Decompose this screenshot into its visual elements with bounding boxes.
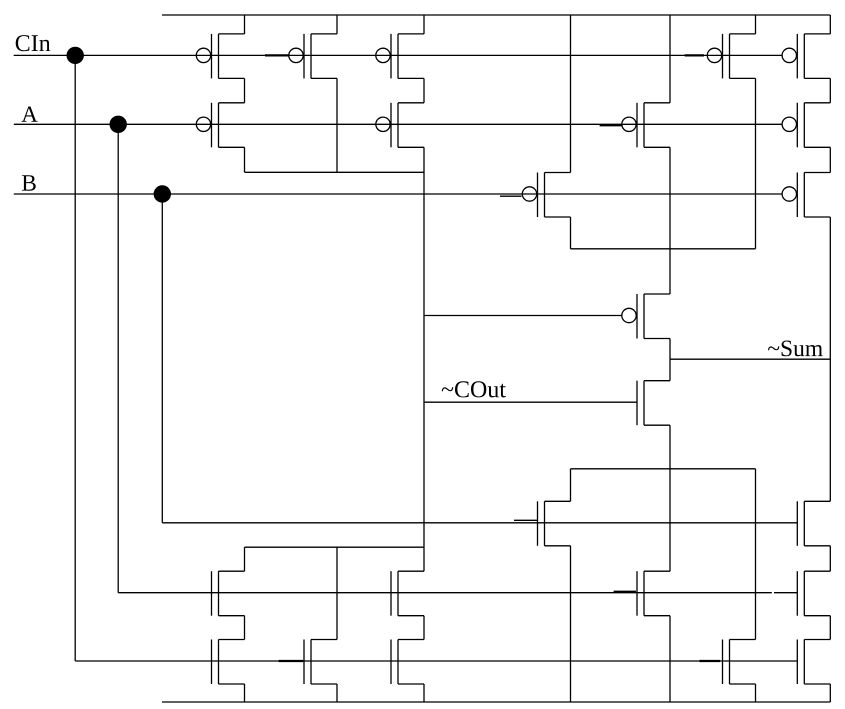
transistor N4 NMOS gate A (carry pull-down) [212,571,245,616]
transistor P2 PMOS gate CIn (carry pull-up) [289,34,337,79]
wire sum inverter output vertical [669,339,671,381]
wire sum pull-down node horizontal [571,468,756,470]
wire P9 drain to P10 source [829,78,831,102]
node CIn junction dot [67,47,83,63]
transistor N3 NMOS gate B (sum stack) [797,501,830,546]
transistor P11 PMOS gate B (sum stack) [782,173,830,218]
wire N6 source to GND [669,616,671,702]
transistor P5 PMOS gate A (carry pull-up) [376,103,424,148]
wire B input net (horizontal) [14,193,782,195]
net label ~Sum [768,341,823,357]
wire N2 drain to sum pull-down node [570,469,572,502]
net label ~COut [442,381,506,397]
wire GND bottom rail [162,701,830,703]
wire B net NMOS gate row [162,522,797,524]
wire P1 source to VDD [244,15,246,34]
transistor N8 NMOS gate CIn (carry pull-down) [212,640,245,685]
wire P2 drain to carry bus [336,78,338,172]
wire CIn input net (horizontal) [14,54,782,56]
wire sum pull-down node to N11 drain [755,469,757,640]
wire gate tick N9 [279,660,304,662]
wire sum pull-up node horizontal [571,248,756,250]
wire N4 source to N8 drain [244,616,246,640]
wire A net NMOS gate row (right stub) [774,592,797,594]
transistor P3 PMOS gate CIn (carry pull-up) [376,34,424,79]
wire N11 source to GND [755,684,757,702]
wire N4 drain to NMOS bus [244,547,246,571]
transistor P9 PMOS gate CIn (sum stack) [782,34,830,79]
wire P6 drain to sum pull-up node [570,217,572,249]
wire P3 source to VDD [423,15,425,34]
wire P11 drain to Sum node and N3 drain [829,217,831,501]
wire VDD top rail [162,14,830,16]
node B junction dot [154,186,170,202]
wire N5 drain to NMOS bus [423,547,425,571]
wire N8 source to GND [244,684,246,702]
transistor N12 NMOS gate CIn (sum stack) [797,640,830,685]
wire gate tick N2 [514,519,538,521]
transistor N2 NMOS gate B (sum pull-down) [538,501,571,546]
node A junction dot [110,116,126,132]
wire P4 drain to carry bus [244,147,246,172]
wire sum inverter PMOS gate [424,315,622,317]
wire gate tick N6 [614,590,636,592]
wire N12 source to GND [829,684,831,702]
wire P2 source to VDD [336,15,338,34]
wire A vertical drop [117,124,119,592]
wire N5 source to N10 drain [423,616,425,640]
transistor N10 NMOS gate CIn (carry pull-down) [391,640,424,685]
transistor N5 NMOS gate A (carry pull-down) [391,571,424,616]
transistor P6 PMOS gate B (sum pull-up) [522,173,570,218]
wire P7 source to VDD [669,15,671,103]
wire gate tick P8 [685,54,704,56]
wire gate tick P6 [500,195,522,197]
wire A input net (horizontal) [14,123,782,125]
transistor N7 NMOS gate A (sum stack) [797,571,830,616]
wire P1 drain to P4 source [244,78,246,102]
transistor N11 NMOS gate CIn (sum pull-down) [723,640,756,685]
transistor P8 PMOS gate CIn (sum pull-up) [707,34,755,79]
transistor P10 PMOS gate A (sum stack) [782,103,830,148]
wire P3 drain to P5 source [423,78,425,102]
wire N1 source down to N6 drain [669,425,671,571]
wire CIn net NMOS gate row [75,660,797,662]
wire N2 source to GND [570,546,572,702]
wire A net NMOS gate row (left part) [118,592,772,594]
wire P8 source to VDD [755,15,757,34]
wire N10 source to GND [423,684,425,702]
wire P7 drain down to sum inverter PMOS [669,147,671,294]
wire P9 source to VDD [829,15,831,34]
wire P6 source to VDD [570,15,572,173]
wire PMOS carry drain bus [245,171,425,173]
transistor N9 NMOS gate CIn (carry pull-down) [304,640,337,685]
net label CIn [16,35,51,51]
net label A [22,107,38,122]
wire P10 drain to P11 source [829,147,831,172]
transistor N6 NMOS gate A (sum pull-down) [637,571,670,616]
transistor P12 PMOS sum inverter [622,294,670,339]
wire B vertical drop [161,194,163,523]
net label B [22,175,36,191]
wire gate tick P2 [265,54,289,56]
wire N7 source to N12 drain [829,616,831,640]
wire CIn vertical drop [74,55,76,661]
wire N3 source to N7 drain [829,546,831,571]
transistor P7 PMOS gate A (sum pull-up) [622,103,670,148]
transistor P4 PMOS gate A (carry pull-up) [196,103,244,148]
transistor P1 PMOS gate CIn (carry pull-up) [196,34,244,79]
wire NMOS carry source bus [245,546,425,548]
wire Sum output node [670,358,830,360]
wire N9 source to GND [336,684,338,702]
wire P8 drain to sum pull-up node [755,78,757,248]
wire gate tick P7 [600,125,622,127]
wire NMOS bus to N9 drain [336,547,338,639]
wire ~COut net to sum inverter NMOS gate [424,401,637,403]
transistor N1 NMOS sum inverter [637,381,670,426]
wire gate tick N11 [700,660,721,662]
wire P5 drain down ~COut node vertical [423,147,425,547]
